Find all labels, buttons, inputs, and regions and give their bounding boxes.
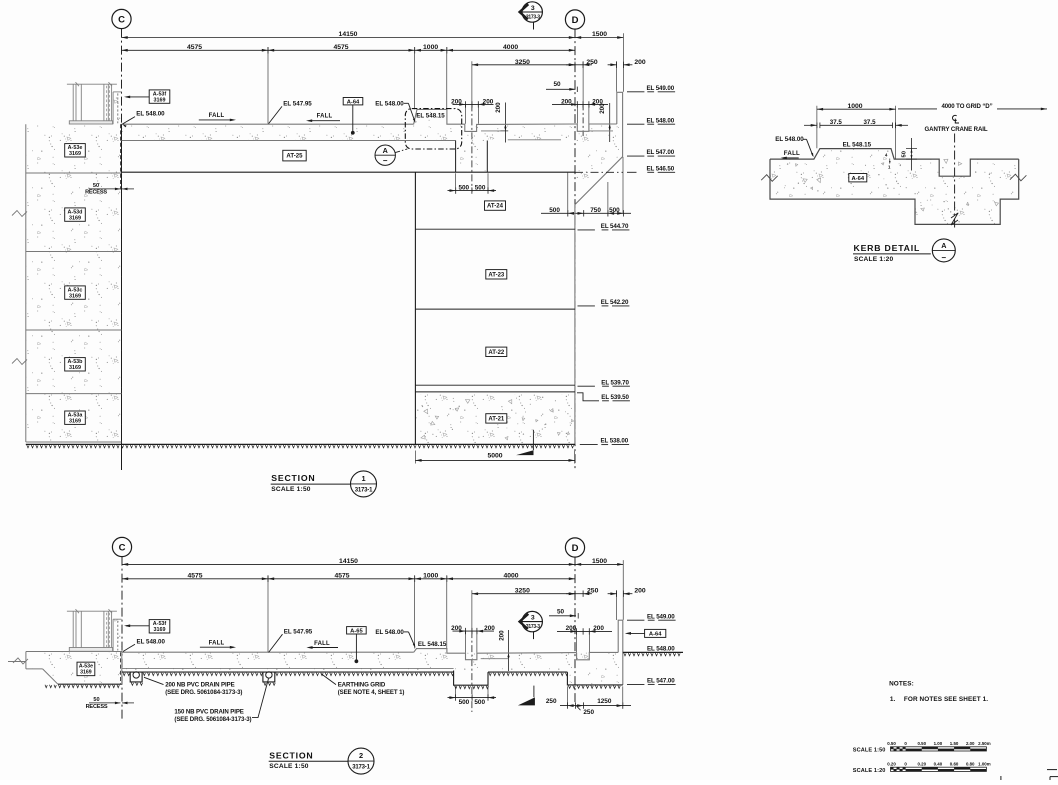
- svg-text:AT-25: AT-25: [286, 153, 303, 160]
- svg-text:3173-1: 3173-1: [355, 488, 373, 494]
- svg-text:KERB DETAIL: KERB DETAIL: [854, 243, 921, 253]
- svg-text:0.20: 0.20: [917, 761, 926, 766]
- svg-text:EL 548.15: EL 548.15: [843, 141, 872, 148]
- svg-text:A-64: A-64: [852, 176, 865, 182]
- svg-text:200: 200: [599, 103, 606, 114]
- svg-text:4575: 4575: [333, 44, 348, 51]
- svg-text:250: 250: [586, 59, 598, 66]
- svg-text:14150: 14150: [339, 558, 358, 565]
- svg-text:SCALE 1:50: SCALE 1:50: [853, 748, 886, 754]
- svg-text:1000: 1000: [423, 44, 438, 51]
- svg-text:50: 50: [93, 697, 99, 703]
- svg-text:FALL: FALL: [317, 114, 333, 120]
- svg-text:200 NB PVC DRAIN PIPE: 200 NB PVC DRAIN PIPE: [165, 681, 234, 688]
- svg-text:37.5: 37.5: [863, 119, 876, 126]
- svg-text:SECTION: SECTION: [271, 473, 315, 483]
- svg-text:750: 750: [590, 207, 601, 214]
- svg-text:EL 538.00: EL 538.00: [601, 438, 629, 445]
- svg-text:5000: 5000: [487, 452, 502, 459]
- svg-text:3169: 3169: [80, 670, 92, 676]
- svg-text:4575: 4575: [187, 44, 202, 51]
- svg-text:FALL: FALL: [209, 641, 225, 647]
- svg-text:D: D: [572, 15, 579, 26]
- svg-text:200: 200: [495, 102, 502, 113]
- svg-text:0.20: 0.20: [887, 761, 896, 766]
- svg-text:50: 50: [902, 151, 908, 157]
- svg-text:A-64: A-64: [649, 632, 662, 638]
- svg-text:2: 2: [359, 751, 363, 760]
- svg-text:500: 500: [459, 699, 470, 706]
- svg-text:RECESS: RECESS: [85, 189, 107, 195]
- svg-text:FALL: FALL: [209, 113, 225, 119]
- svg-text:200: 200: [451, 98, 462, 105]
- svg-text:37.5: 37.5: [830, 119, 843, 126]
- svg-text:SCALE 1:50: SCALE 1:50: [271, 486, 311, 493]
- svg-text:250: 250: [583, 709, 594, 716]
- svg-text:50: 50: [93, 183, 99, 189]
- svg-text:EL 542.20: EL 542.20: [601, 299, 629, 306]
- svg-text:3169: 3169: [69, 293, 81, 299]
- svg-text:EL 548.00: EL 548.00: [775, 136, 804, 143]
- svg-text:4575: 4575: [334, 573, 349, 580]
- svg-text:A-65: A-65: [350, 628, 363, 634]
- svg-text:EL 548.00: EL 548.00: [137, 638, 166, 645]
- svg-text:2.50m: 2.50m: [978, 741, 991, 746]
- svg-text:200: 200: [566, 625, 577, 632]
- svg-text:3169: 3169: [69, 365, 81, 371]
- svg-text:0.60: 0.60: [950, 761, 959, 766]
- svg-text:1250: 1250: [597, 698, 612, 705]
- svg-text:EL 544.70: EL 544.70: [601, 223, 629, 230]
- svg-text:1.00m: 1.00m: [978, 761, 991, 766]
- svg-text:EL 547.95: EL 547.95: [283, 101, 312, 108]
- svg-text:200: 200: [634, 59, 646, 66]
- svg-text:A: A: [383, 146, 388, 155]
- svg-text:1000: 1000: [423, 573, 438, 580]
- svg-text:3169: 3169: [154, 627, 166, 633]
- svg-text:500: 500: [609, 207, 620, 214]
- svg-text:EL 539.70: EL 539.70: [601, 379, 629, 386]
- svg-text:150 NB PVC DRAIN PIPE: 150 NB PVC DRAIN PIPE: [174, 708, 243, 715]
- svg-text:1: 1: [361, 474, 365, 483]
- svg-text:3173-3: 3173-3: [526, 624, 540, 630]
- svg-text:0.50: 0.50: [917, 741, 926, 746]
- svg-text:EL 548.00: EL 548.00: [647, 117, 675, 124]
- svg-text:200: 200: [483, 98, 494, 105]
- svg-text:0.50: 0.50: [887, 741, 896, 746]
- svg-text:D: D: [572, 543, 579, 554]
- svg-text:200: 200: [451, 625, 462, 632]
- svg-text:SCALE 1:20: SCALE 1:20: [854, 256, 894, 263]
- svg-text:250: 250: [546, 698, 557, 705]
- svg-text:200: 200: [593, 625, 604, 632]
- svg-text:RECESS: RECESS: [86, 704, 108, 710]
- svg-text:NOTES:: NOTES:: [889, 680, 914, 687]
- svg-text:AT-21: AT-21: [488, 417, 505, 423]
- svg-text:3169: 3169: [69, 215, 81, 221]
- svg-text:2.00: 2.00: [966, 741, 975, 746]
- svg-text:500: 500: [549, 207, 560, 214]
- svg-text:AT-22: AT-22: [488, 350, 505, 356]
- svg-text:500: 500: [458, 184, 469, 191]
- svg-text:EL 546.50: EL 546.50: [647, 165, 675, 172]
- svg-text:GANTRY CRANE RAIL: GANTRY CRANE RAIL: [925, 126, 988, 133]
- svg-text:250: 250: [587, 588, 599, 595]
- svg-text:FOR NOTES SEE SHEET 1.: FOR NOTES SEE SHEET 1.: [904, 696, 988, 703]
- svg-text:4000 TO GRID “D”: 4000 TO GRID “D”: [941, 103, 992, 110]
- svg-text:FALL: FALL: [314, 641, 330, 647]
- svg-text:0.80: 0.80: [966, 761, 975, 766]
- svg-text:200: 200: [484, 625, 495, 632]
- svg-text:A: A: [941, 241, 946, 250]
- svg-text:1.: 1.: [890, 696, 896, 703]
- svg-text:(SEE NOTE 4, SHEET 1): (SEE NOTE 4, SHEET 1): [338, 689, 405, 696]
- svg-text:500: 500: [474, 699, 485, 706]
- svg-text:3250: 3250: [515, 59, 530, 66]
- svg-text:3: 3: [531, 615, 535, 622]
- svg-text:EARTHING GRID: EARTHING GRID: [338, 681, 386, 688]
- svg-text:SECTION: SECTION: [269, 750, 313, 760]
- svg-text:FALL: FALL: [784, 150, 800, 157]
- svg-text:14150: 14150: [339, 31, 358, 38]
- svg-text:EL 547.00: EL 547.00: [647, 678, 675, 685]
- svg-text:1500: 1500: [592, 31, 607, 38]
- svg-text:EL 549.00: EL 549.00: [647, 85, 675, 92]
- svg-text:4000: 4000: [503, 44, 518, 51]
- svg-text:3169: 3169: [69, 419, 81, 425]
- svg-text:A-64: A-64: [347, 99, 360, 105]
- svg-text:(SEE DRG. 5061084-3173-3): (SEE DRG. 5061084-3173-3): [165, 689, 242, 696]
- svg-text:EL 547.00: EL 547.00: [647, 149, 675, 156]
- svg-text:EL 548.00: EL 548.00: [375, 629, 404, 636]
- svg-text:4575: 4575: [187, 573, 202, 580]
- svg-text:1500: 1500: [592, 558, 607, 565]
- svg-text:C: C: [118, 14, 125, 25]
- svg-text:4000: 4000: [503, 573, 518, 580]
- svg-text:3173-3: 3173-3: [526, 15, 540, 21]
- svg-text:1.00: 1.00: [934, 741, 943, 746]
- svg-text:EL 548.15: EL 548.15: [416, 112, 445, 119]
- svg-text:AT-23: AT-23: [488, 272, 505, 278]
- svg-text:0.40: 0.40: [934, 761, 943, 766]
- svg-text:EL 548.00: EL 548.00: [647, 646, 675, 653]
- svg-text:500: 500: [475, 184, 486, 191]
- svg-text:3250: 3250: [515, 588, 530, 595]
- svg-text:SCALE 1:50: SCALE 1:50: [269, 763, 309, 770]
- svg-text:3: 3: [531, 5, 535, 12]
- svg-text:1.50: 1.50: [950, 741, 959, 746]
- svg-text:EL 539.50: EL 539.50: [601, 394, 629, 401]
- svg-text:EL 547.95: EL 547.95: [284, 628, 313, 635]
- svg-text:50: 50: [553, 81, 561, 88]
- svg-text:200: 200: [561, 98, 572, 105]
- svg-text:SCALE 1:20: SCALE 1:20: [853, 768, 886, 774]
- svg-text:EL 548.00: EL 548.00: [375, 101, 404, 108]
- svg-text:3169: 3169: [154, 97, 166, 103]
- svg-text:EL 548.15: EL 548.15: [418, 641, 447, 648]
- svg-text:3173-1: 3173-1: [352, 765, 370, 771]
- svg-text:EL 549.00: EL 549.00: [647, 613, 675, 620]
- svg-text:200: 200: [499, 630, 506, 641]
- svg-text:50: 50: [557, 609, 565, 616]
- svg-text:EL 548.00: EL 548.00: [136, 111, 165, 118]
- svg-text:AT-24: AT-24: [487, 204, 504, 210]
- svg-text:3169: 3169: [69, 151, 81, 157]
- svg-text:1000: 1000: [847, 103, 862, 110]
- svg-text:200: 200: [634, 588, 646, 595]
- svg-text:(SEE DRG. 5061084-3173-3): (SEE DRG. 5061084-3173-3): [174, 716, 251, 723]
- svg-text:C: C: [119, 542, 126, 553]
